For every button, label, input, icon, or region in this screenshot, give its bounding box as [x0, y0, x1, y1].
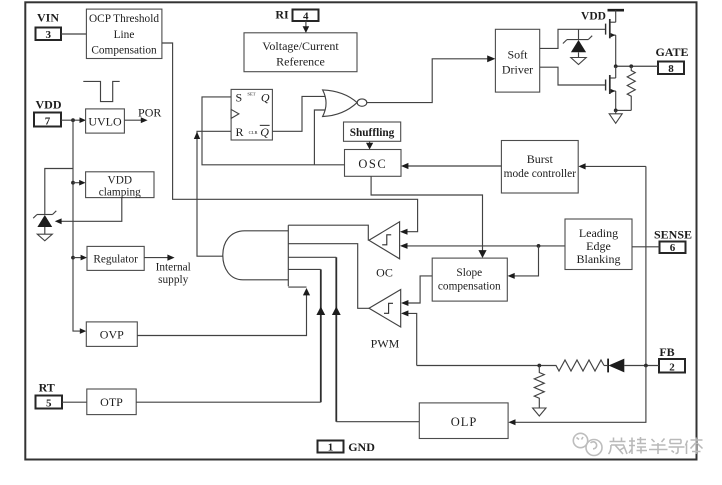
svg-text:VDD: VDD [581, 10, 606, 22]
resistor R2 (horizontal) [417, 360, 604, 371]
pin 4 box [293, 10, 319, 23]
svg-text:FB: FB [659, 345, 674, 359]
block OTP [87, 389, 136, 415]
ground below R3 [533, 408, 546, 416]
block Soft Driver [495, 29, 539, 92]
svg-text:5: 5 [46, 398, 52, 410]
svg-text:OC: OC [376, 266, 393, 280]
svg-text:1: 1 [328, 442, 334, 454]
svg-text:PWM: PWM [371, 336, 400, 350]
svg-text:POR: POR [138, 105, 161, 119]
wire OTP output to AND input4 [320, 269, 322, 402]
wire bus branch to VDD clamping [71, 181, 75, 185]
svg-text:Voltage/Current: Voltage/Current [262, 39, 339, 53]
wire resistor bottom to source node [616, 109, 632, 111]
svg-text:VDD: VDD [36, 98, 62, 112]
comparator OC [369, 222, 400, 259]
node junction dots gate [614, 64, 618, 68]
svg-text:GND: GND [348, 440, 375, 454]
wire FB net down to OLP input [511, 366, 646, 423]
svg-text:OCP Threshold: OCP Threshold [89, 13, 159, 25]
svg-text:RI: RI [275, 8, 289, 22]
wire gate node to pin 8 [616, 65, 658, 67]
svg-text:compensation: compensation [438, 281, 501, 293]
svg-text:OVP: OVP [100, 328, 124, 342]
wire Qbar to NOR top input [272, 96, 325, 131]
block OVP [86, 322, 137, 347]
diode D3 [604, 359, 624, 373]
wire pin7 to UVLO [61, 119, 84, 121]
block Shuffling [344, 122, 401, 141]
svg-text:4: 4 [303, 10, 309, 22]
block Leading Edge Blanking [565, 219, 632, 270]
wire VDD clamping output to zener [58, 198, 122, 222]
svg-text:Blanking: Blanking [577, 252, 621, 266]
zener D2 (gate clamp) [563, 29, 592, 57]
pin 7 box [34, 113, 61, 128]
svg-text:Compensation: Compensation [91, 45, 157, 57]
wire bus branch to zener [45, 169, 73, 215]
pin 6 box [660, 242, 686, 255]
wire OCP output to OC comparator input [162, 43, 418, 232]
pin 8 box [658, 62, 684, 76]
svg-text:Internal: Internal [156, 262, 191, 274]
wire pin5 to OTP [62, 401, 87, 403]
wire OLP output to AND input3 [335, 257, 337, 421]
pin 2 box [659, 359, 685, 373]
block Slope compensation [432, 258, 507, 301]
watermark logo [573, 433, 602, 455]
svg-text:OTP: OTP [100, 395, 123, 409]
ground below zener [37, 234, 52, 241]
resistor R1 (gate) [627, 66, 635, 110]
pin 3 box [36, 28, 62, 42]
POR output arrow [124, 119, 145, 121]
wire OC output to AND input1 [288, 225, 369, 240]
wire VDD bus [73, 120, 84, 331]
power rail bar [608, 9, 625, 12]
svg-text:8: 8 [668, 63, 674, 75]
block VDD clamping [86, 172, 154, 199]
block OCP Threshold Line Compensation [86, 9, 161, 58]
svg-text:VIN: VIN [37, 11, 59, 25]
wire pin4 down to reference [305, 21, 307, 31]
svg-text:Leading: Leading [579, 226, 618, 240]
pulse symbol above UVLO [83, 81, 119, 101]
node VDD bus junction [71, 118, 75, 122]
arrow into OC top input [400, 229, 408, 235]
pin 5 box [36, 396, 63, 410]
wire pin3 to OCP [61, 33, 86, 35]
block Burst mode controller [501, 141, 578, 194]
zener D1 (VDD clamp zener) [33, 211, 56, 234]
gate NOR1 [323, 90, 367, 117]
svg-text:Q: Q [261, 91, 270, 105]
gate AND1 (mirrored) [223, 225, 288, 286]
block UVLO [86, 109, 125, 133]
svg-text:clamping: clamping [99, 186, 141, 198]
comparator PWM [369, 290, 401, 328]
svg-text:SENSE: SENSE [654, 227, 692, 241]
wire LEB branch to slope input [510, 246, 539, 276]
svg-text:Reference: Reference [276, 55, 325, 69]
wire shuffling to OSC [369, 141, 371, 147]
wire slope output to PWM [403, 276, 432, 303]
svg-text:mode controller: mode controller [504, 168, 577, 180]
svg-text:Regulator: Regulator [93, 254, 138, 266]
svg-text:R: R [236, 125, 244, 139]
svg-text:6: 6 [670, 242, 676, 254]
svg-text:3: 3 [45, 29, 51, 41]
svg-text:RT: RT [39, 380, 55, 394]
svg-text:Slope: Slope [456, 267, 482, 279]
block Voltage/Current Reference [244, 33, 357, 72]
watermark text [609, 437, 703, 454]
svg-text:2: 2 [669, 361, 675, 373]
svg-text:Soft: Soft [507, 48, 528, 62]
transistor Q2 (low side) [606, 66, 616, 110]
ground below zener D2 [571, 58, 586, 65]
wire FB net vertical to burst input [645, 166, 647, 365]
wire OVP output to AND input5 [137, 291, 306, 336]
svg-text:supply: supply [158, 274, 188, 286]
wire PWM output to AND input2 [288, 244, 369, 309]
svg-text:Line: Line [114, 29, 135, 41]
wire AND output to latch R [197, 131, 231, 256]
ground below driver [609, 110, 622, 123]
svg-text:UVLO: UVLO [88, 115, 122, 129]
resistor R3 (to ground) [534, 366, 544, 409]
svg-text:Q: Q [260, 125, 269, 139]
wire FB pin to diode [624, 365, 659, 367]
svg-text:GATE: GATE [655, 45, 688, 59]
svg-text:SET: SET [247, 92, 255, 97]
wire burst to OSC [404, 165, 502, 167]
wire driver bottom gate [540, 67, 606, 85]
svg-text:7: 7 [45, 116, 51, 128]
pin 1 box (GND) [318, 441, 344, 454]
transistor Q1 (high side) [606, 10, 616, 66]
wire pin6 to LEB [632, 246, 660, 248]
svg-text:Burst: Burst [527, 152, 554, 166]
wire driver top gate [540, 29, 606, 48]
svg-text:OSC: OSC [358, 157, 387, 171]
svg-text:Driver: Driver [502, 63, 533, 77]
wire branch up to NOR bottom input [314, 110, 325, 165]
wire OC bottom input from LEB [402, 245, 565, 247]
block OLP [419, 403, 508, 439]
wire PWM bottom input from FB divider [403, 313, 416, 365]
svg-text:Shuffling: Shuffling [350, 127, 395, 139]
svg-text:OLP: OLP [451, 415, 478, 429]
wire S net from OSC output [202, 97, 345, 165]
latch U1 (SR flip-flop) [231, 89, 272, 140]
svg-text:S: S [236, 91, 243, 105]
svg-text:VDD: VDD [108, 174, 132, 186]
wire internal supply arrow [144, 257, 172, 259]
svg-text:Edge: Edge [586, 239, 611, 253]
block OSC [345, 150, 402, 177]
wire OSC bottom to slope compensation [371, 176, 482, 255]
wire NOR output to Soft Driver [367, 59, 493, 103]
block Regulator [71, 256, 75, 260]
svg-text:CLR: CLR [249, 130, 259, 135]
